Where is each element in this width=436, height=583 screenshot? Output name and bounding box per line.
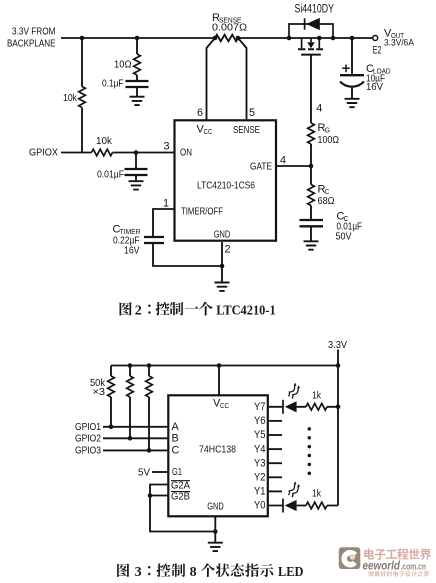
- svg-text:2: 2: [135, 303, 142, 318]
- svg-text:GPIOX: GPIOX: [29, 148, 58, 159]
- svg-text:eeworld: eeworld: [363, 561, 401, 573]
- svg-text:Y5: Y5: [254, 429, 266, 441]
- svg-text:TIMER/OFF: TIMER/OFF: [181, 207, 223, 218]
- svg-text:GPIO3: GPIO3: [75, 445, 101, 456]
- svg-text:G2B: G2B: [171, 492, 190, 503]
- svg-text:×3: ×3: [93, 387, 106, 398]
- svg-text:3.3V/6A: 3.3V/6A: [384, 38, 415, 49]
- svg-text:Y4: Y4: [254, 443, 266, 455]
- svg-text:Y6: Y6: [254, 415, 266, 427]
- svg-text:3.3V FROM: 3.3V FROM: [12, 27, 56, 38]
- svg-text:2: 2: [225, 244, 231, 256]
- svg-text:3: 3: [135, 565, 142, 580]
- svg-text:LTC4210-1: LTC4210-1: [216, 303, 276, 318]
- svg-text:G: G: [325, 128, 330, 135]
- svg-text:50V: 50V: [336, 232, 352, 243]
- svg-text:1: 1: [163, 198, 169, 210]
- svg-text:68Ω: 68Ω: [318, 196, 335, 207]
- svg-text:16V: 16V: [124, 246, 140, 257]
- svg-text:ON: ON: [180, 148, 192, 159]
- svg-text:Y7: Y7: [254, 401, 266, 413]
- svg-text:100Ω: 100Ω: [318, 135, 340, 146]
- svg-text:LTC4210-1CS6: LTC4210-1CS6: [197, 181, 255, 192]
- svg-text:0.1µF: 0.1µF: [102, 79, 124, 90]
- svg-text:C: C: [172, 445, 180, 457]
- svg-text:A: A: [172, 421, 180, 433]
- svg-text:74HC138: 74HC138: [199, 445, 236, 456]
- svg-text:6: 6: [197, 107, 203, 119]
- svg-text:Y1: Y1: [254, 486, 266, 498]
- svg-text:3.3V: 3.3V: [328, 340, 347, 351]
- svg-text:CC: CC: [220, 403, 229, 410]
- svg-text:G2A: G2A: [171, 481, 190, 492]
- svg-text:GND: GND: [207, 502, 224, 513]
- svg-text:5V: 5V: [138, 467, 150, 478]
- svg-text:B: B: [172, 433, 179, 445]
- svg-text:0.007Ω: 0.007Ω: [212, 23, 247, 34]
- svg-text:SENSE: SENSE: [233, 125, 260, 136]
- svg-text:GATE: GATE: [250, 162, 272, 173]
- svg-text:Si4410DY: Si4410DY: [295, 4, 335, 16]
- svg-text:E2: E2: [373, 44, 382, 56]
- svg-text:5: 5: [249, 107, 255, 119]
- svg-text:16V: 16V: [366, 82, 383, 93]
- svg-text:0.01µF: 0.01µF: [97, 170, 124, 181]
- svg-text:10k: 10k: [96, 136, 113, 147]
- svg-text:4: 4: [316, 102, 322, 114]
- svg-text:Y2: Y2: [254, 472, 266, 484]
- svg-text:Y3: Y3: [254, 457, 266, 469]
- svg-text:1k: 1k: [312, 390, 322, 401]
- svg-text:GPIO1: GPIO1: [75, 422, 101, 433]
- svg-text:LED: LED: [278, 565, 304, 580]
- svg-text:GND: GND: [214, 230, 231, 241]
- svg-text:4: 4: [280, 155, 286, 167]
- svg-text:BACKPLANE: BACKPLANE: [7, 39, 56, 50]
- svg-text:10Ω: 10Ω: [114, 60, 132, 71]
- svg-text:3: 3: [163, 141, 169, 153]
- svg-text:G1: G1: [172, 467, 182, 478]
- svg-text:.com.cn: .com.cn: [401, 561, 427, 571]
- svg-text:CC: CC: [204, 129, 213, 136]
- svg-text:8: 8: [190, 565, 197, 580]
- svg-text:GPIO2: GPIO2: [75, 433, 101, 444]
- svg-text:Y0: Y0: [254, 500, 266, 512]
- svg-text:10k: 10k: [63, 93, 78, 104]
- svg-text:1k: 1k: [312, 488, 322, 499]
